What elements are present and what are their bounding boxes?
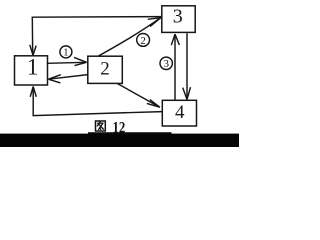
arrowhead into box4 left [147,100,160,108]
label circled 1 [60,46,72,59]
svg-text:2: 2 [100,58,110,79]
box 1 [15,55,48,85]
svg-text:2: 2 [140,35,146,47]
arrowhead into box4 top [183,87,191,99]
label circled 2 [137,34,150,47]
svg-text:1: 1 [63,47,69,59]
svg-text:4: 4 [175,102,185,123]
arrowhead into box3 bottom [171,34,179,45]
wire 4 to 3 vertical [174,34,176,100]
arrowhead into box1 right [48,75,60,83]
box 2 [88,56,123,83]
caption underline [88,132,172,134]
wire 4 to 1 bottom route [33,87,162,116]
bottom black bar [0,134,239,147]
wire 2 to 4 diagonal [118,84,160,108]
wire 2 to 3 diagonal [98,18,161,57]
svg-text:1: 1 [27,55,39,80]
arrowhead into box1 top [30,45,36,55]
arrowhead into box3 left [148,18,161,27]
label circled 3 [160,57,172,70]
wire 2 to 1 [48,75,87,80]
wire 3 to 1 top route [32,17,162,55]
wire 3 to 4 vertical [186,33,188,99]
svg-text:3: 3 [173,6,183,28]
box 3 [162,6,195,33]
svg-text:3: 3 [163,58,169,70]
arrowhead into box2 left [74,57,87,65]
wire 1 to 2 [47,62,87,63]
caption glyph tu (figure) [96,121,106,131]
arrowhead into box1 bottom [30,86,36,96]
box 4 [162,100,196,126]
